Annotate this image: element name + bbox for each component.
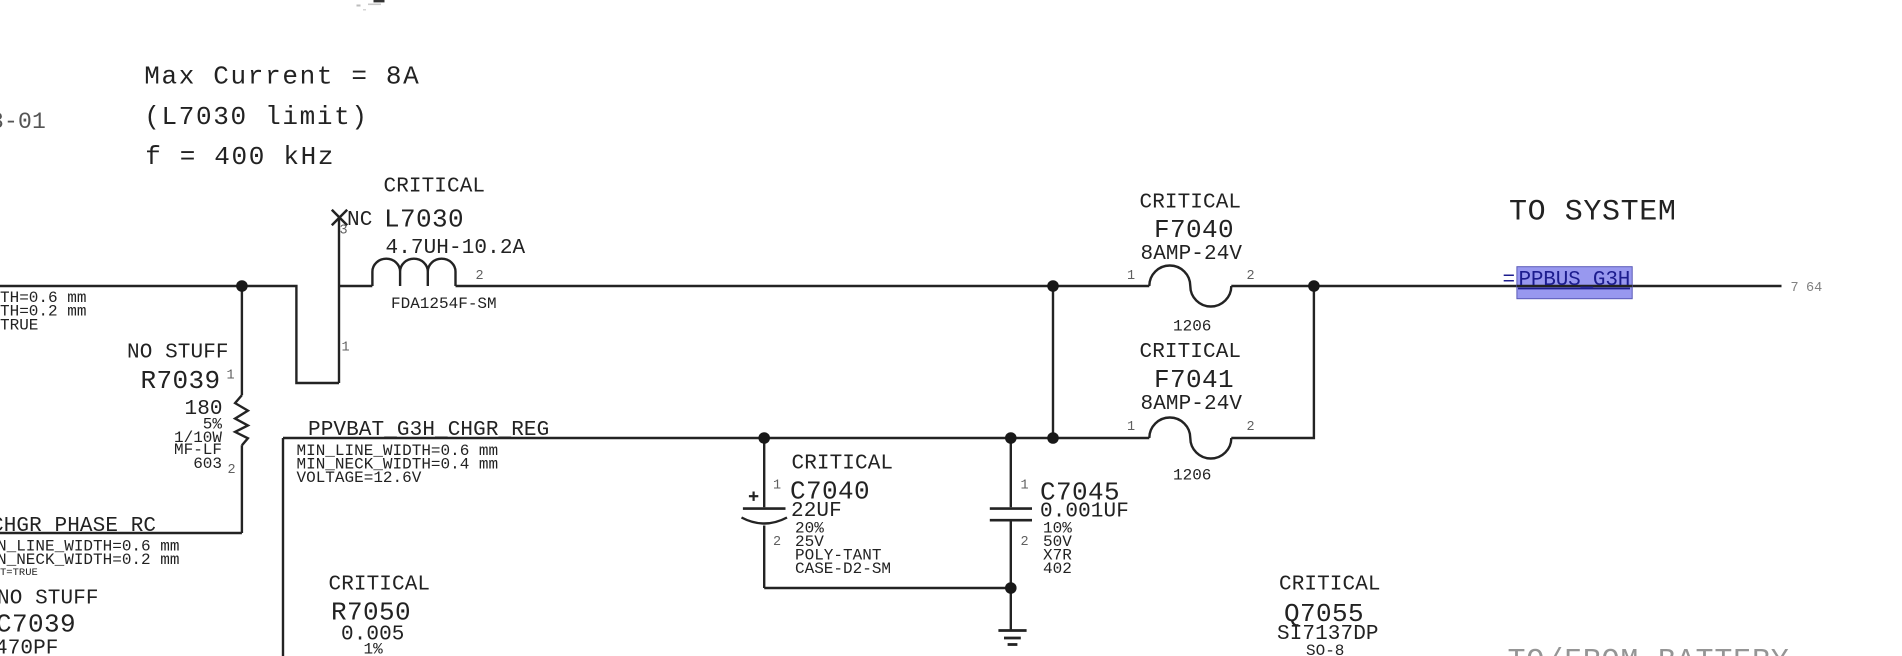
wire: R7039 bottom lead bbox=[241, 445, 243, 533]
fuse F7041 body bbox=[1149, 417, 1231, 458]
fuse F7040 labels bbox=[1127, 192, 1255, 336]
svg-text:7: 7 bbox=[1791, 281, 1799, 296]
svg-text:NO STUFF: NO STUFF bbox=[127, 342, 229, 365]
svg-text:CHGR_PHASE_RC: CHGR_PHASE_RC bbox=[0, 515, 156, 538]
svg-text:CRITICAL: CRITICAL bbox=[329, 574, 431, 597]
svg-text:CASE-D2-SM: CASE-D2-SM bbox=[795, 560, 891, 578]
fuse F7041 labels bbox=[1127, 341, 1255, 485]
wire: L7030 pin-2 to F7040 pin-1 (PPVBAT node) bbox=[456, 285, 1150, 287]
ground bars bbox=[998, 631, 1026, 645]
inductor L7030 coil loops bbox=[372, 259, 455, 286]
svg-text:1: 1 bbox=[1127, 269, 1135, 284]
svg-text:8AMP-24V: 8AMP-24V bbox=[1141, 393, 1243, 416]
junction dot PPBUS node bbox=[1308, 280, 1320, 292]
junction dot mid vertical bottom bbox=[1047, 432, 1059, 444]
svg-text:2: 2 bbox=[1247, 420, 1255, 435]
svg-text:TRUE: TRUE bbox=[0, 316, 38, 334]
resistor R7039 labels bbox=[127, 342, 236, 479]
svg-text:CRITICAL: CRITICAL bbox=[384, 176, 486, 199]
svg-text:CRITICAL: CRITICAL bbox=[792, 453, 894, 476]
svg-text:2: 2 bbox=[476, 269, 484, 284]
svg-text:CRITICAL: CRITICAL bbox=[1279, 574, 1381, 597]
svg-text:Max Current = 8A: Max Current = 8A bbox=[144, 62, 420, 92]
svg-text:2: 2 bbox=[228, 463, 236, 478]
resistor R7050 labels bbox=[329, 574, 431, 656]
svg-text:1: 1 bbox=[342, 341, 350, 356]
capacitor C7040 bottom lead bbox=[763, 526, 765, 589]
wire: F7041 pin-2 up to PPBUS node bbox=[1231, 286, 1314, 438]
fuse F7040 body bbox=[1149, 265, 1231, 306]
svg-text:4.7UH-10.2A: 4.7UH-10.2A bbox=[386, 237, 526, 260]
svg-text:2: 2 bbox=[1247, 269, 1255, 284]
svg-text:R7039: R7039 bbox=[141, 366, 221, 396]
svg-text:T=TRUE: T=TRUE bbox=[0, 567, 38, 579]
svg-text:PPVBAT_G3H_CHGR_REG: PPVBAT_G3H_CHGR_REG bbox=[308, 419, 549, 442]
note: max current annotation bbox=[144, 62, 420, 173]
capacitor C7039 labels (clipped at left) bbox=[0, 588, 99, 656]
svg-text:1: 1 bbox=[773, 479, 781, 494]
svg-text:L7030: L7030 bbox=[384, 205, 464, 235]
svg-text:TO SYSTEM: TO SYSTEM bbox=[1509, 196, 1676, 230]
svg-text:SO-8: SO-8 bbox=[1306, 642, 1344, 656]
capacitor C7045 plates bbox=[990, 509, 1032, 521]
svg-text:CRITICAL: CRITICAL bbox=[1140, 341, 1242, 364]
net label PPBUS_G3H highlight box bbox=[1503, 267, 1633, 299]
wire: main input net from left edge bbox=[0, 286, 339, 383]
svg-text:NC: NC bbox=[347, 209, 372, 232]
top edge text artifact bbox=[357, 0, 385, 11]
capacitor C7040 top lead bbox=[763, 438, 765, 507]
svg-text:603: 603 bbox=[193, 455, 222, 473]
junction dot R7039/main bbox=[236, 280, 248, 292]
junction dot ground node bbox=[1005, 582, 1017, 594]
svg-text:CRITICAL: CRITICAL bbox=[1140, 192, 1242, 215]
svg-text:f = 400 kHz: f = 400 kHz bbox=[145, 142, 335, 172]
capacitor C7045 bottom lead bbox=[1010, 522, 1012, 589]
svg-text:2: 2 bbox=[1021, 535, 1029, 550]
transistor Q7055 labels bbox=[1277, 574, 1381, 656]
svg-text:3-01: 3-01 bbox=[0, 109, 46, 135]
svg-text:64: 64 bbox=[1806, 281, 1822, 296]
svg-text:TO/FROM BATTERY: TO/FROM BATTERY bbox=[1508, 645, 1790, 656]
svg-text:1: 1 bbox=[1127, 420, 1135, 435]
no-connect X on L7030 pin 3 bbox=[332, 210, 347, 225]
svg-text:NO STUFF: NO STUFF bbox=[0, 588, 99, 611]
wire: junction vertical between main net and charger reg net bbox=[1052, 286, 1054, 438]
svg-text:C7039: C7039 bbox=[0, 610, 76, 640]
svg-text:470PF: 470PF bbox=[0, 638, 59, 656]
resistor R7039 zigzag body bbox=[235, 395, 248, 445]
capacitor C7040 top plate bbox=[743, 507, 786, 510]
svg-text:1: 1 bbox=[1021, 479, 1029, 494]
wire: F7040 pin-2 to PPBUS_G3H off-page bbox=[1231, 285, 1781, 287]
wire: L7030 pin-1 vertical stub bbox=[338, 218, 340, 384]
net label PPVBAT_G3H_CHGR_REG bbox=[297, 419, 550, 487]
svg-text:FDA1254F-SM: FDA1254F-SM bbox=[391, 295, 497, 313]
svg-text:3: 3 bbox=[340, 224, 348, 239]
wire: R7039 top lead bbox=[241, 286, 243, 395]
svg-text:402: 402 bbox=[1043, 560, 1072, 578]
svg-text:2: 2 bbox=[773, 535, 781, 550]
svg-text:1206: 1206 bbox=[1173, 318, 1211, 336]
svg-text:1%: 1% bbox=[364, 641, 384, 656]
svg-text:F7041: F7041 bbox=[1154, 365, 1234, 395]
junction dot C7040 top bbox=[758, 432, 770, 444]
svg-text:F7040: F7040 bbox=[1154, 215, 1234, 245]
svg-text:8AMP-24V: 8AMP-24V bbox=[1141, 243, 1243, 266]
wire: PPVBAT_G3H_CHGR_REG horizontal net bbox=[283, 437, 1149, 439]
svg-text:1: 1 bbox=[227, 369, 235, 384]
off-page reference 7 64 bbox=[1791, 281, 1823, 296]
junction dot C7045 top bbox=[1005, 432, 1017, 444]
wire: capacitor ground return bbox=[764, 587, 1011, 589]
svg-text:VOLTAGE=12.6V: VOLTAGE=12.6V bbox=[297, 469, 422, 487]
plus sign of polarized cap C7040 bbox=[749, 492, 758, 501]
wire: CHGR_PHASE_RC net bbox=[0, 532, 242, 534]
svg-text:1206: 1206 bbox=[1173, 467, 1211, 485]
capacitor C7045 labels bbox=[1021, 478, 1129, 579]
capacitor C7045 top lead bbox=[1010, 438, 1012, 507]
left edge net properties bbox=[0, 289, 86, 334]
junction dot F7040 pin1 bbox=[1047, 280, 1059, 292]
capacitor C7040 labels bbox=[773, 453, 893, 579]
net label CHGR_PHASE_RC bbox=[0, 515, 179, 579]
wire: PPVBAT_G3H_CHGR_REG vertical drop to R7050 bbox=[282, 438, 284, 656]
svg-text:=: = bbox=[1503, 269, 1516, 292]
inductor L7030 labels bbox=[340, 176, 526, 356]
ground stem bbox=[1010, 588, 1012, 631]
wire: coil baseline lead into L7030 bbox=[339, 285, 372, 287]
capacitor C7040 curved bottom plate bbox=[742, 518, 788, 524]
svg-text:(L7030 limit): (L7030 limit) bbox=[144, 102, 368, 132]
